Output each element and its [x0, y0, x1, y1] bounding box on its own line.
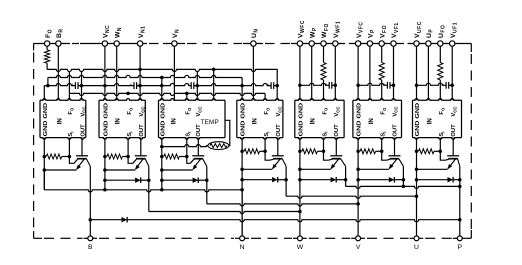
svg-text:N: N: [240, 244, 245, 251]
svg-text:SI: SI: [439, 132, 445, 137]
svg-text:W: W: [297, 244, 304, 251]
svg-text:FO: FO: [127, 107, 133, 115]
svg-text:P: P: [458, 244, 463, 251]
svg-text:IN: IN: [310, 118, 317, 125]
diode D6 freewheel diode: [300, 177, 347, 183]
pin UP (terminal circle + label): [426, 29, 435, 47]
pin B (power terminal): [88, 236, 93, 251]
label U7 pin names: [415, 103, 457, 137]
svg-text:IN: IN: [56, 118, 63, 125]
resistor R5 gate/sense resistor: [302, 149, 318, 154]
pin VFO (terminal circle + label): [379, 25, 388, 46]
svg-text:VCC: VCC: [451, 107, 457, 117]
wire P rail (Q5/Q6/Q7 collectors): [346, 166, 462, 188]
svg-text:OUT: OUT: [139, 124, 145, 137]
label U2 pin names: [104, 103, 146, 137]
resistor R2 gate/sense resistor: [107, 154, 123, 159]
wire Q5 cell wiring (W-high): [298, 138, 336, 236]
svg-text:SI: SI: [68, 132, 74, 137]
wire U1 column drops: [69, 72, 81, 101]
pin VWFC (terminal circle + label): [297, 20, 306, 46]
svg-text:GND GND: GND GND: [415, 103, 421, 137]
transistor Q2 W-low IGBT: [135, 156, 149, 170]
wire L1 Vcc feed line: [47, 68, 277, 86]
svg-text:FO: FO: [264, 107, 270, 115]
svg-text:FO: FO: [439, 107, 445, 115]
pin VVF1 (terminal circle + label): [391, 22, 400, 46]
label U6 pin names: [357, 103, 399, 137]
svg-text:SI: SI: [264, 132, 270, 137]
wire driver ground rail: [44, 170, 244, 192]
pin VP (terminal circle + label): [367, 29, 376, 46]
svg-text:IN: IN: [426, 118, 433, 125]
wire left border (dashed): [33, 44, 35, 239]
pin P (power terminal): [457, 236, 462, 251]
pin U (power terminal): [414, 236, 419, 251]
svg-text:SI: SI: [127, 132, 133, 137]
svg-text:GND GND: GND GND: [357, 103, 363, 137]
pin VUFC (terminal circle + label): [414, 21, 423, 46]
wire L4 fault bus: [69, 92, 265, 101]
IC U2 gate driver box: [99, 99, 145, 140]
svg-text:SI: SI: [322, 132, 328, 137]
pin VNC (terminal circle + label): [102, 25, 111, 46]
resistor R1 gate/sense resistor: [46, 154, 62, 159]
svg-text:FO: FO: [322, 107, 328, 115]
wire WN input to U2.IN: [116, 46, 118, 100]
svg-text:GND GND: GND GND: [160, 103, 166, 137]
svg-text:GND GND: GND GND: [104, 103, 110, 137]
svg-text:VCC: VCC: [392, 107, 398, 117]
pin VVFC (terminal circle + label): [355, 21, 364, 46]
svg-text:VCC: VCC: [139, 107, 145, 117]
svg-text:OUT: OUT: [392, 124, 398, 137]
IC U3 gate driver box: [159, 99, 226, 140]
resistor R-FO (fault output pull-up): [45, 46, 50, 69]
pin BR (terminal circle + label): [56, 28, 65, 46]
wire VNC to ground bus / U2 GND: [104, 46, 106, 100]
pin V (power terminal): [356, 236, 361, 251]
resistor R4 gate/sense resistor: [244, 149, 260, 154]
svg-text:IN: IN: [170, 118, 177, 125]
svg-text:V: V: [356, 244, 361, 251]
pin VN (terminal circle + label): [172, 29, 181, 46]
svg-text:SI: SI: [186, 132, 192, 137]
pin WP (terminal circle + label): [309, 27, 318, 46]
wire Q4 cell wiring (U-low): [240, 138, 277, 236]
pin W (power terminal): [297, 236, 304, 251]
IC U4 gate driver box: [237, 99, 283, 140]
resistor R6 gate/sense resistor: [360, 149, 376, 154]
wire Q1 cell wiring (brake): [43, 138, 82, 190]
pin VUF1 (terminal circle + label): [450, 22, 459, 46]
pin VN1 (terminal circle + label): [137, 26, 146, 47]
pin N (power terminal): [240, 236, 245, 251]
wire VN1 supply drop: [139, 46, 141, 100]
wire Q6 cell wiring (V-high): [356, 138, 394, 236]
svg-text:OUT: OUT: [334, 124, 340, 137]
pin VWF1 (terminal circle + label): [333, 21, 342, 46]
svg-text:FO: FO: [186, 107, 192, 115]
svg-text:FO: FO: [68, 107, 74, 115]
wire Q3 cell wiring (V-low): [160, 138, 198, 190]
svg-text:SI: SI: [381, 132, 387, 137]
thermistor TH1 (TEMP sensor): [160, 120, 230, 149]
wire L2 ground bus A: [48, 75, 242, 85]
svg-text:OUT: OUT: [80, 124, 86, 137]
resistor RVFO (fault pull-up): [379, 63, 384, 81]
diode D8 freewheel diode: [417, 177, 462, 183]
svg-text:VCC: VCC: [276, 107, 282, 117]
capacitor CU bootstrap: [415, 82, 454, 89]
svg-text:B: B: [88, 244, 93, 251]
label U1 pin names: [43, 103, 87, 137]
wire L3 ground bus B with capacitors C1-C4: [44, 82, 279, 100]
IC U5 gate driver box: [295, 99, 344, 140]
label U5 pin names: [299, 103, 341, 137]
svg-text:OUT: OUT: [276, 124, 282, 137]
transistor Q6 V-high IGBT: [389, 156, 404, 170]
svg-text:VCC: VCC: [196, 107, 202, 117]
svg-text:VCC: VCC: [80, 107, 86, 117]
IC U7 gate driver box: [413, 99, 462, 140]
svg-text:U: U: [414, 244, 419, 251]
svg-text:GND GND: GND GND: [299, 103, 305, 137]
diode D1 brake freewheel to P: [90, 217, 460, 223]
wire Q2 collector to W output: [149, 166, 302, 213]
wire W-phase high-side pin drops: [300, 46, 335, 100]
wire Q4 collector to U output: [286, 166, 418, 198]
svg-text:IN: IN: [368, 118, 375, 125]
wire UN input to U4.IN: [252, 46, 254, 100]
transistor Q3 V-low IGBT: [192, 156, 207, 170]
diode D4 freewheel diode: [162, 177, 209, 183]
svg-text:GND GND: GND GND: [241, 103, 247, 137]
wire V-phase high-side pin drops: [358, 46, 393, 100]
IC U1 gate driver box: [40, 99, 86, 140]
wire Q2 cell wiring (W-low): [103, 138, 141, 190]
resistor R7 gate/sense resistor: [419, 149, 435, 154]
label U3 pin names: [160, 103, 218, 137]
pin WFO (terminal circle + label): [321, 23, 330, 46]
wire VN input to U3.IN: [173, 46, 175, 100]
wire N line (U4 ground to terminal N): [241, 190, 243, 236]
svg-text:VCC: VCC: [334, 107, 340, 117]
resistor R3 gate/sense resistor: [164, 154, 180, 159]
label U4 pin names: [241, 103, 283, 137]
wire right border (dashed): [470, 44, 472, 239]
diode D7 freewheel diode: [358, 177, 405, 183]
wire Q7 collector to terminal P: [458, 166, 462, 236]
svg-text:GND GND: GND GND: [43, 103, 49, 137]
transistor Q1 brake IGBT: [76, 156, 90, 170]
wire Q3 collector to V output: [207, 166, 360, 206]
wire U-phase high-side pin drops: [417, 46, 453, 100]
transistor Q7 U-high IGBT: [447, 156, 460, 170]
wire Q1 collector to terminal B: [89, 166, 93, 236]
capacitor CV bootstrap: [356, 82, 395, 89]
transistor Q4 U-low IGBT: [272, 156, 286, 170]
wire U3 column drops: [162, 69, 214, 100]
pin FO (terminal circle + label): [44, 29, 53, 46]
wire bottom border (module outline, dashed): [34, 237, 472, 239]
pin UN (terminal circle + label): [251, 28, 260, 46]
wire U4 column drops: [242, 86, 277, 101]
wire Q7 cell wiring (U-high): [415, 138, 453, 236]
svg-text:IN: IN: [115, 118, 122, 125]
diode D5 freewheel diode: [242, 177, 288, 183]
pin WN (terminal circle + label): [114, 27, 123, 46]
capacitor CW bootstrap: [298, 82, 337, 89]
wire top border (module outline, dashed): [34, 43, 472, 45]
IC U6 gate driver box: [353, 99, 402, 140]
svg-text:IN: IN: [251, 118, 258, 125]
svg-text:OUT: OUT: [451, 124, 457, 137]
resistor RUFO (fault pull-up): [438, 63, 443, 81]
wire BR input to U1.IN: [57, 46, 59, 100]
pin UFO (terminal circle + label): [438, 25, 447, 47]
wire Q6 collector to P rail: [402, 166, 404, 186]
resistor RWFO (fault pull-up): [321, 63, 326, 81]
transistor Q5 W-high IGBT: [330, 156, 345, 170]
diode D3 freewheel diode: [105, 177, 151, 183]
svg-text:FO: FO: [381, 107, 387, 115]
svg-text:TEMP: TEMP: [201, 119, 219, 126]
